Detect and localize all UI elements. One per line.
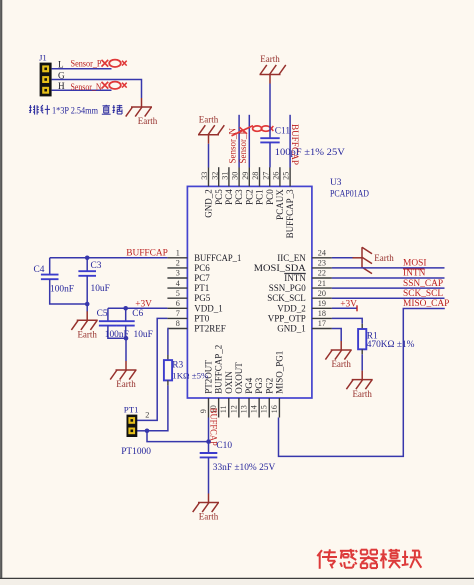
svg-text:MISO_PG1: MISO_PG1 xyxy=(275,351,285,394)
svg-text:13: 13 xyxy=(239,405,248,413)
U3 pin 20 SCK_SCL xyxy=(312,297,332,299)
earth below C10 xyxy=(208,494,210,503)
earth below R1 xyxy=(361,371,363,380)
svg-text:BUFFCAP: BUFFCAP xyxy=(290,124,300,165)
earth above C11 xyxy=(269,75,271,84)
earth below C3/C4 xyxy=(86,311,88,320)
junction at C10 top xyxy=(206,439,211,444)
svg-text:PC1: PC1 xyxy=(255,189,265,205)
wire junction to PT1 pin 1 xyxy=(137,430,147,432)
svg-text:PG5: PG5 xyxy=(194,293,211,303)
svg-text:Earth: Earth xyxy=(260,54,280,64)
svg-text:GND_2: GND_2 xyxy=(204,189,214,218)
U3 pin 18 VPP_OTP xyxy=(312,317,332,319)
svg-text:PC6: PC6 xyxy=(194,263,210,273)
U3 pin 29 PC2 xyxy=(248,167,250,186)
svg-text:MISO_CAP: MISO_CAP xyxy=(403,299,449,309)
svg-text:Sensor_P: Sensor_P xyxy=(238,129,248,163)
svg-text:Sensor_P: Sensor_P xyxy=(71,60,102,70)
svg-text:8: 8 xyxy=(176,319,180,328)
svg-text:PCAP01AD: PCAP01AD xyxy=(330,189,369,199)
no-ERC marker on Sensor_N xyxy=(102,82,109,89)
wire to earth below C6 xyxy=(125,338,127,361)
svg-text:6: 6 xyxy=(176,299,180,308)
svg-text:SSN_CAP: SSN_CAP xyxy=(403,279,443,289)
wire pin 9 down to C10 xyxy=(208,418,210,442)
svg-text:C6: C6 xyxy=(132,309,143,319)
U3 pin 33 GND_2 xyxy=(208,167,210,186)
svg-text:17: 17 xyxy=(318,319,326,328)
svg-text:PG4: PG4 xyxy=(244,377,254,394)
svg-text:21: 21 xyxy=(318,279,326,288)
svg-text:C4: C4 xyxy=(34,265,45,275)
svg-text:PC0: PC0 xyxy=(265,189,275,205)
svg-text:C11: C11 xyxy=(275,127,291,137)
svg-text:Sensor_N: Sensor_N xyxy=(71,83,102,93)
wire R3 down to PT1 net xyxy=(147,385,168,430)
U3 pin 24 IIC_EN xyxy=(312,257,332,259)
svg-text:23: 23 xyxy=(318,259,326,268)
junction at C6 top xyxy=(123,306,128,311)
wire C11 to pin 27 xyxy=(269,142,271,167)
capacitor C10 xyxy=(208,442,210,453)
svg-text:20: 20 xyxy=(318,289,326,298)
svg-text:1: 1 xyxy=(176,249,180,258)
svg-text:INTN: INTN xyxy=(284,273,306,283)
net BUFFCAP wire pin 1 xyxy=(50,257,168,259)
svg-text:J1: J1 xyxy=(39,53,47,63)
svg-text:SSN_PG0: SSN_PG0 xyxy=(269,283,307,293)
svg-text:PC2: PC2 xyxy=(244,189,254,205)
svg-text:25: 25 xyxy=(282,172,291,180)
sheet border bottom edge xyxy=(0,578,474,580)
wire SCK_SCL pin 20 xyxy=(332,297,445,299)
svg-text:24: 24 xyxy=(318,249,326,258)
junction at C5/C6 bottom xyxy=(124,336,129,341)
svg-text:1KΩ ±5%: 1KΩ ±5% xyxy=(172,370,209,380)
svg-text:OXOUT: OXOUT xyxy=(234,362,244,394)
svg-text:10uF: 10uF xyxy=(134,330,153,340)
wire junction down to C10 node xyxy=(147,431,209,442)
resistor R3 xyxy=(167,355,169,360)
sheet border left edge xyxy=(0,0,2,578)
U3 pin 22 INTN xyxy=(312,277,332,279)
wire INTN pin 22 xyxy=(332,277,445,279)
U3 pin 5 PG5 xyxy=(167,297,187,299)
wire MOSI pin 23 xyxy=(332,267,445,269)
U3 pin 16 MISO_PG1 xyxy=(278,398,280,418)
capacitor C4 xyxy=(49,258,51,275)
label header type 1*3P 2.54mm xyxy=(29,105,31,113)
U3 pin 13 PG4 xyxy=(248,398,250,418)
svg-text:L: L xyxy=(58,59,64,69)
svg-text:OXIN: OXIN xyxy=(224,371,234,394)
svg-text:12: 12 xyxy=(229,405,238,413)
U3 pin 11 OXIN xyxy=(228,398,230,418)
svg-text:R3: R3 xyxy=(172,361,183,371)
connector J1 body xyxy=(40,63,52,97)
svg-text:Earth: Earth xyxy=(116,379,136,389)
U3 pin 1 BUFFCAP_1 xyxy=(167,257,187,259)
svg-text:1*3P 2.54mm: 1*3P 2.54mm xyxy=(52,107,99,117)
wire pin 17 GND_1 to earth xyxy=(332,329,341,342)
wire pin 24 to earth xyxy=(332,257,354,259)
earth below pin 17 xyxy=(340,341,342,350)
U3 pin 30 PC3 xyxy=(238,167,240,186)
svg-text:PT1: PT1 xyxy=(194,283,209,293)
U3 pin 4 PT1 xyxy=(167,287,187,289)
wire pin 19 +3V xyxy=(332,307,357,309)
svg-text:GND_1: GND_1 xyxy=(277,324,306,334)
svg-text:Earth: Earth xyxy=(199,512,219,522)
wire pin 7 PT0 down to PT1 xyxy=(137,318,168,420)
no-ERC marker on Sensor_P xyxy=(102,60,109,67)
svg-text:VDD_2: VDD_2 xyxy=(277,303,306,313)
svg-text:4: 4 xyxy=(176,279,180,288)
junction at C3/C4 bottom xyxy=(85,302,90,307)
svg-text:2: 2 xyxy=(176,259,180,268)
junction at PT1 pin 1 xyxy=(145,429,150,434)
capacitor C3 xyxy=(86,258,88,271)
svg-text:BUFFCAP_3: BUFFCAP_3 xyxy=(285,189,295,239)
svg-text:PC7: PC7 xyxy=(194,273,210,283)
wire J1 pin H (Sensor_N) xyxy=(52,89,112,91)
U3 pin 26 PCAUX xyxy=(279,167,281,186)
svg-text:470KΩ ±1%: 470KΩ ±1% xyxy=(367,340,415,350)
capacitor C6 xyxy=(125,308,127,321)
U3 pin 10 BUFFCAP_2 xyxy=(218,398,220,418)
capacitor C5 xyxy=(107,308,109,321)
svg-text:BUFFCAP_2: BUFFCAP_2 xyxy=(214,345,224,394)
svg-text:32: 32 xyxy=(210,172,219,180)
wire SSN_CAP pin 21 xyxy=(332,287,445,289)
wire earth to C11 xyxy=(269,84,271,139)
svg-text:MOSI_SDA: MOSI_SDA xyxy=(254,263,307,273)
op-amp U3 body PCAP01AD xyxy=(187,186,312,398)
wire J1 pin L (Sensor_P) xyxy=(52,68,112,70)
U3 pin 32 PC5 xyxy=(218,167,220,186)
svg-text:C5: C5 xyxy=(97,309,108,319)
U3 pin 19 VDD_2 xyxy=(312,307,332,309)
svg-text:Earth: Earth xyxy=(138,116,158,126)
svg-text:VPP_OTP: VPP_OTP xyxy=(268,313,306,323)
resistor R1 xyxy=(361,324,363,329)
svg-text:27: 27 xyxy=(261,172,270,180)
svg-text:PT1000: PT1000 xyxy=(121,447,151,457)
svg-text:PC4: PC4 xyxy=(224,189,234,205)
svg-text:30: 30 xyxy=(231,172,240,180)
wire +3V to pin 6 xyxy=(108,307,167,309)
U3 pin 28 PC1 xyxy=(259,167,261,186)
U3 pin 3 PC7 xyxy=(167,277,187,279)
svg-text:C3: C3 xyxy=(91,261,102,271)
wire C10 to earth xyxy=(208,457,210,493)
svg-text:15: 15 xyxy=(260,405,269,413)
wire J1 pin G to earth xyxy=(52,80,142,99)
svg-text:IIC_EN: IIC_EN xyxy=(277,253,306,263)
U3 pin 17 GND_1 xyxy=(312,328,332,330)
svg-text:100nF: 100nF xyxy=(50,285,74,295)
junction at C3 top xyxy=(85,255,90,260)
svg-text:14: 14 xyxy=(250,405,259,413)
connector PT1 body xyxy=(127,415,138,437)
earth at J1 pin G xyxy=(141,98,143,107)
wire R1 to earth xyxy=(361,354,363,370)
U3 pin 6 VDD_1 xyxy=(167,307,187,309)
capacitor C11 xyxy=(260,137,279,139)
svg-text:29: 29 xyxy=(241,172,250,180)
svg-text:Earth: Earth xyxy=(77,330,97,340)
svg-text:Earth: Earth xyxy=(374,253,394,263)
svg-text:BUFFCAP_1: BUFFCAP_1 xyxy=(194,253,241,263)
svg-text:Earth: Earth xyxy=(331,359,351,369)
svg-text:PC3: PC3 xyxy=(234,189,244,205)
U3 pin 25 BUFFCAP_3 xyxy=(289,167,291,186)
connector PT1 pads xyxy=(128,417,135,424)
U3 pin 14 PG3 xyxy=(258,398,260,418)
svg-text:100pF ±1% 25V: 100pF ±1% 25V xyxy=(275,148,345,158)
svg-text:PT2REF: PT2REF xyxy=(194,324,226,334)
U3 pin 2 PC6 xyxy=(167,267,187,269)
wire MISO_CAP from pin 16 xyxy=(279,309,445,457)
svg-text:PCAUX: PCAUX xyxy=(275,189,285,220)
wire Sensor_P to pin 29 xyxy=(248,115,250,168)
svg-text:Earth: Earth xyxy=(199,115,219,125)
U3 pin 15 PG2 xyxy=(268,398,270,418)
svg-text:INTN: INTN xyxy=(403,269,426,279)
svg-text:28: 28 xyxy=(251,172,260,180)
svg-text:7: 7 xyxy=(176,309,180,318)
svg-text:19: 19 xyxy=(318,299,326,308)
svg-text:10uF: 10uF xyxy=(91,284,110,294)
U3 pin 8 PT2REF xyxy=(167,328,187,330)
svg-text:U3: U3 xyxy=(330,178,342,188)
U3 pin 7 PT0 xyxy=(167,317,187,319)
U3 pin 27 PC0 xyxy=(269,167,271,186)
svg-text:33nF ±10% 25V: 33nF ±10% 25V xyxy=(213,463,276,473)
wire to earth below C3 xyxy=(86,304,88,312)
svg-text:PT1: PT1 xyxy=(124,405,139,415)
wire pin 33 to earth xyxy=(208,144,210,168)
U3 pin 23 MOSI_SDA xyxy=(312,267,332,269)
earth above pin 33 xyxy=(208,135,210,144)
earth below C5/C6 xyxy=(125,361,127,370)
svg-text:22: 22 xyxy=(318,269,326,278)
svg-text:26: 26 xyxy=(272,172,281,180)
wire pin 8 PT2REF to R3 xyxy=(166,329,169,356)
svg-text:2: 2 xyxy=(145,411,149,420)
svg-text:33: 33 xyxy=(200,172,209,180)
svg-text:SCK_SCL: SCK_SCL xyxy=(267,293,306,303)
U3 pin 9 PT2OUT xyxy=(208,398,210,418)
title block text 传感器模块 xyxy=(317,550,322,556)
svg-text:C10: C10 xyxy=(216,441,232,451)
svg-text:SCK_SCL: SCK_SCL xyxy=(403,289,443,299)
svg-text:MOSI: MOSI xyxy=(403,259,426,269)
connector J1 pads xyxy=(42,65,49,72)
svg-text:VDD_1: VDD_1 xyxy=(194,303,223,313)
svg-text:16: 16 xyxy=(270,405,279,413)
svg-text:PG2: PG2 xyxy=(264,378,274,394)
wire BUFFCAP_3 stub pin 25 xyxy=(289,115,291,168)
svg-text:9: 9 xyxy=(199,409,208,413)
U3 pin 31 PC4 xyxy=(228,167,230,186)
svg-text:Earth: Earth xyxy=(352,389,372,399)
U3 pin 12 OXOUT xyxy=(238,398,240,418)
svg-text:PT0: PT0 xyxy=(194,313,210,323)
no-ERC marker pair on sensor wires xyxy=(232,126,254,136)
wire Sensor_N to pin 30 xyxy=(238,115,240,168)
wire pin 18 VPP_OTP to R1 xyxy=(332,318,362,323)
earth at pin 24 rotated xyxy=(353,257,363,259)
svg-text:5: 5 xyxy=(176,289,180,298)
svg-text:PG3: PG3 xyxy=(254,377,264,394)
svg-text:BUFFCAP: BUFFCAP xyxy=(126,248,168,258)
svg-text:11: 11 xyxy=(219,405,228,413)
svg-text:3: 3 xyxy=(176,269,180,278)
svg-text:18: 18 xyxy=(318,309,326,318)
svg-text:31: 31 xyxy=(221,172,230,180)
svg-text:PC5: PC5 xyxy=(214,189,224,205)
U3 pin 21 SSN_PG0 xyxy=(312,287,332,289)
